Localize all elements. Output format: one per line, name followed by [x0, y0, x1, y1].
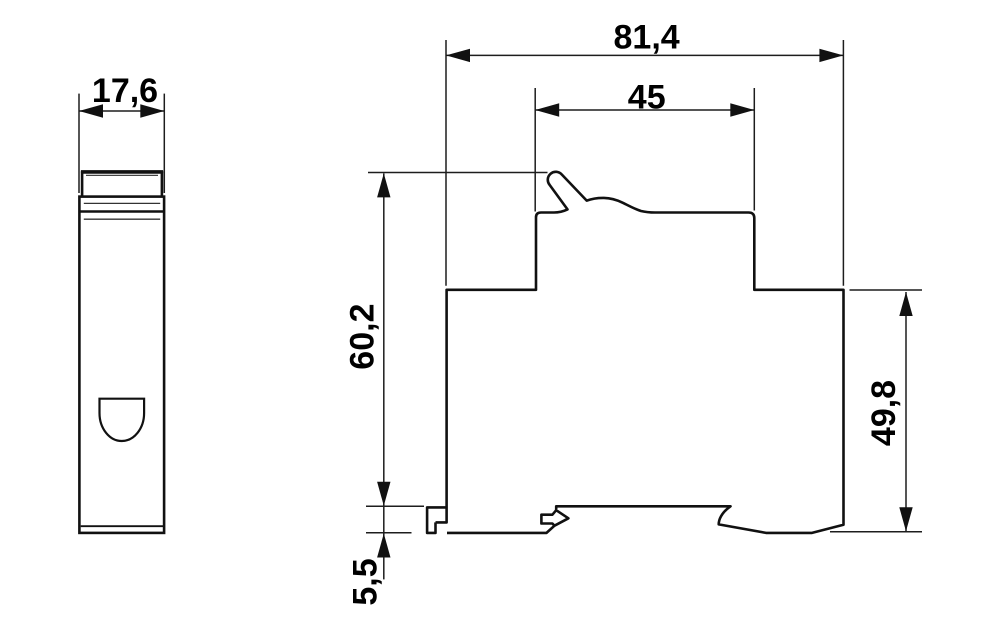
60,2 bottom arrow (down) [377, 482, 390, 506]
body band thin line 2 [84, 218, 160, 220]
bottom inner line [81, 525, 163, 527]
81,4 right arrow [819, 49, 843, 62]
cap top edge thick [81, 170, 163, 173]
45 dimension line [535, 109, 754, 111]
cap inner thin line [86, 174, 158, 176]
svg-text:81,4: 81,4 [614, 19, 680, 57]
5,5 lower tail line [383, 534, 385, 580]
body band divider thick [79, 210, 164, 212]
17,6 left arrow [79, 104, 103, 117]
cap (top raised block) [82, 173, 162, 197]
60,2 top arrow (up) [377, 173, 390, 197]
81,4 dimension line [446, 54, 843, 56]
main profile outline with toggle lever and DIN foot [436, 172, 844, 533]
49,8 bottom arrow (down) [899, 507, 912, 531]
svg-text:60,2: 60,2 [344, 304, 382, 370]
body outline [79, 197, 164, 533]
45 left arrow [535, 103, 559, 116]
body top band thin line 1 [84, 202, 160, 204]
60,2 top extension line (to lever top) [368, 172, 548, 174]
left mounting tab [427, 507, 447, 533]
45 extension lines [534, 88, 536, 212]
5,5 bottom arrow (up, from below) [377, 534, 390, 558]
81,4 extension lines [445, 40, 447, 286]
svg-text:17,6: 17,6 [92, 72, 158, 110]
lower-left extension line (slot level) [366, 505, 424, 507]
49,8 extension lines [850, 289, 923, 291]
81,4 left arrow [446, 49, 470, 62]
lower-left extension line (bottom level) [366, 532, 412, 534]
svg-text:5,5: 5,5 [346, 558, 384, 605]
arrowheads [79, 49, 913, 558]
svg-text:49,8: 49,8 [865, 380, 903, 446]
17,6 right arrow [140, 104, 164, 117]
17,6 extension lines [78, 94, 80, 193]
svg-text:45: 45 [628, 79, 666, 117]
45 right arrow [730, 103, 754, 116]
17,6 dimension line [79, 110, 164, 112]
dimension labels [92, 19, 903, 606]
latch tail notch [541, 510, 556, 526]
49,8 top arrow (up) [899, 292, 912, 316]
60,2 dimension line [383, 173, 385, 533]
U-shaped cutout [100, 399, 145, 441]
49,8 dimension line [905, 292, 907, 531]
